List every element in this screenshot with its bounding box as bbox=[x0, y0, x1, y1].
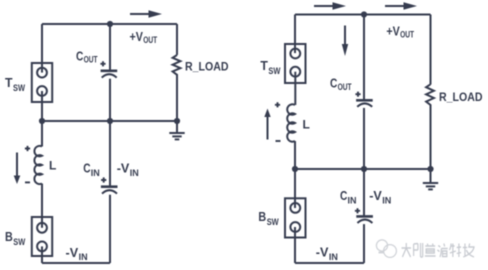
current arrow: output current top left circuit bbox=[130, 10, 162, 17]
node: middle-right junction right circuit bbox=[427, 166, 433, 172]
svg-text:SW: SW bbox=[13, 83, 25, 93]
svg-text:IN: IN bbox=[79, 252, 88, 262]
node: middle-center junction left circuit bbox=[107, 118, 113, 124]
current arrow: inductor current (up) right circuit bbox=[264, 109, 270, 140]
svg-text:OUT: OUT bbox=[84, 55, 98, 65]
node: output junction top right circuit bbox=[361, 11, 367, 17]
label T_SW right circuit bbox=[260, 58, 280, 76]
svg-text:IN: IN bbox=[382, 196, 391, 206]
wire: left rail into T_SW left circuit bbox=[41, 24, 43, 73]
svg-text:T: T bbox=[260, 58, 268, 73]
wire: middle rail to C_IN left circuit bbox=[109, 121, 111, 186]
wire: middle rail to C_IN right circuit bbox=[363, 169, 365, 216]
svg-text:T: T bbox=[5, 75, 13, 90]
svg-text:+V: +V bbox=[130, 29, 144, 44]
capacitor C_IN left circuit bbox=[101, 187, 118, 194]
label C_OUT left circuit bbox=[76, 48, 98, 64]
svg-text:B: B bbox=[5, 229, 13, 244]
inductor L right circuit bbox=[287, 104, 295, 141]
wire: middle rail to B_SW right circuit bbox=[294, 169, 296, 208]
node: middle-left junction left circuit bbox=[39, 118, 45, 124]
svg-text:IN: IN bbox=[91, 168, 100, 178]
svg-text:-V: -V bbox=[117, 161, 130, 176]
wire: top rail right circuit bbox=[295, 14, 431, 16]
node: middle-left junction right circuit bbox=[292, 166, 298, 172]
svg-text:OUT: OUT bbox=[400, 30, 414, 40]
wire: R_LOAD to middle rail right circuit bbox=[430, 105, 432, 170]
wire: C_IN to bottom rail left circuit bbox=[109, 195, 111, 263]
wire: left rail from inductor to B_SW left circuit bbox=[41, 184, 43, 228]
ground right circuit bbox=[423, 169, 438, 189]
label C_OUT right circuit bbox=[330, 76, 352, 93]
label C_IN left circuit bbox=[83, 161, 100, 179]
current arrow: top-right segment right circuit bbox=[385, 2, 417, 9]
inductor L left circuit bbox=[34, 146, 42, 184]
wire: middle rail left circuit bbox=[42, 120, 177, 122]
node: output junction top left circuit bbox=[107, 21, 113, 27]
polarity plus C_IN right circuit bbox=[355, 208, 360, 213]
svg-text:C: C bbox=[330, 76, 338, 91]
wire: top rail to R_LOAD left circuit bbox=[176, 24, 178, 55]
ground left circuit bbox=[169, 121, 184, 139]
label C_IN right circuit bbox=[340, 188, 357, 206]
wire: top rail to R_LOAD right circuit bbox=[430, 15, 432, 85]
switch T_SW left circuit bbox=[32, 63, 52, 102]
wire: left rail from T_SW to inductor left circuit bbox=[41, 91, 43, 147]
wire: top rail to C_OUT right circuit bbox=[363, 15, 365, 100]
watermark text 大印蓝海科技 bbox=[402, 243, 474, 257]
svg-text:IN: IN bbox=[130, 168, 139, 178]
wire: B_SW to bottom rail left circuit bbox=[41, 246, 43, 263]
capacitor C_OUT left circuit bbox=[101, 71, 118, 78]
svg-text:L: L bbox=[303, 118, 310, 132]
wire: top rail to C_OUT left circuit bbox=[109, 24, 111, 70]
polarity minus inductor right circuit bbox=[276, 140, 281, 142]
svg-text:+V: +V bbox=[386, 23, 400, 38]
label B_SW left circuit bbox=[5, 229, 26, 247]
wire: bottom rail right circuit bbox=[295, 262, 364, 264]
wire: B_SW to bottom rail right circuit bbox=[294, 227, 296, 263]
switch B_SW left circuit bbox=[32, 217, 52, 256]
label +VOUT left circuit bbox=[130, 29, 158, 45]
svg-text:IN: IN bbox=[329, 252, 338, 262]
svg-text:SW: SW bbox=[268, 66, 280, 76]
svg-text:SW: SW bbox=[267, 217, 279, 227]
wire: top rail left circuit bbox=[42, 23, 177, 25]
capacitor C_OUT right circuit bbox=[356, 100, 373, 107]
capacitor C_IN right circuit bbox=[356, 216, 373, 223]
svg-text:OUT: OUT bbox=[338, 82, 352, 92]
polarity plus inductor right circuit bbox=[275, 102, 280, 107]
svg-text:C: C bbox=[76, 48, 84, 63]
label T_SW left circuit bbox=[5, 75, 25, 93]
label -VIN bottom right circuit bbox=[316, 245, 338, 262]
wire: R_LOAD to middle rail left circuit bbox=[176, 75, 178, 121]
label +VOUT right circuit bbox=[386, 23, 414, 39]
label -VIN middle right circuit bbox=[369, 188, 391, 206]
node: middle-center junction right circuit bbox=[361, 166, 367, 172]
wire: middle rail right circuit bbox=[295, 168, 431, 170]
resistor R_LOAD left circuit bbox=[173, 55, 181, 75]
wire: left rail into T_SW right circuit bbox=[294, 15, 296, 54]
svg-text:R_LOAD: R_LOAD bbox=[439, 92, 483, 104]
polarity plus C_IN left circuit bbox=[101, 177, 106, 182]
current arrow: inductor current (down) left circuit bbox=[14, 153, 21, 185]
svg-text:B: B bbox=[258, 209, 266, 224]
polarity minus inductor left circuit bbox=[25, 181, 30, 183]
node: middle-right junction left circuit bbox=[174, 118, 180, 124]
polarity plus inductor left circuit bbox=[25, 146, 30, 151]
wire: bottom rail left circuit bbox=[42, 262, 110, 264]
polarity plus C_OUT right circuit bbox=[355, 92, 360, 97]
svg-text:R_LOAD: R_LOAD bbox=[185, 61, 229, 73]
current arrow: C_OUT branch (down) right circuit bbox=[342, 26, 348, 57]
wire: C_OUT to middle rail left circuit bbox=[109, 79, 111, 121]
resistor R_LOAD right circuit bbox=[426, 84, 434, 106]
switch B_SW right circuit bbox=[285, 198, 306, 237]
wire: T_SW to inductor right circuit bbox=[294, 72, 296, 105]
label -VIN bottom left circuit bbox=[66, 245, 88, 262]
wire: C_IN to bottom rail right circuit bbox=[363, 224, 365, 263]
svg-text:L: L bbox=[49, 159, 56, 173]
svg-text:OUT: OUT bbox=[143, 35, 157, 45]
svg-text:-V: -V bbox=[316, 245, 329, 260]
switch T_SW right circuit bbox=[285, 44, 306, 83]
svg-text:IN: IN bbox=[348, 196, 357, 206]
wire: C_OUT to middle rail right circuit bbox=[363, 108, 365, 169]
polarity plus C_OUT left circuit bbox=[100, 61, 105, 66]
svg-text:-V: -V bbox=[66, 245, 79, 260]
label B_SW right circuit bbox=[258, 209, 279, 227]
wire: inductor to middle rail right circuit bbox=[294, 141, 296, 169]
watermark logo icon bbox=[376, 240, 396, 258]
current arrow: top-left segment right circuit bbox=[314, 2, 346, 9]
svg-text:-V: -V bbox=[369, 188, 382, 203]
svg-text:SW: SW bbox=[13, 237, 25, 247]
label -VIN middle left circuit bbox=[117, 161, 139, 179]
